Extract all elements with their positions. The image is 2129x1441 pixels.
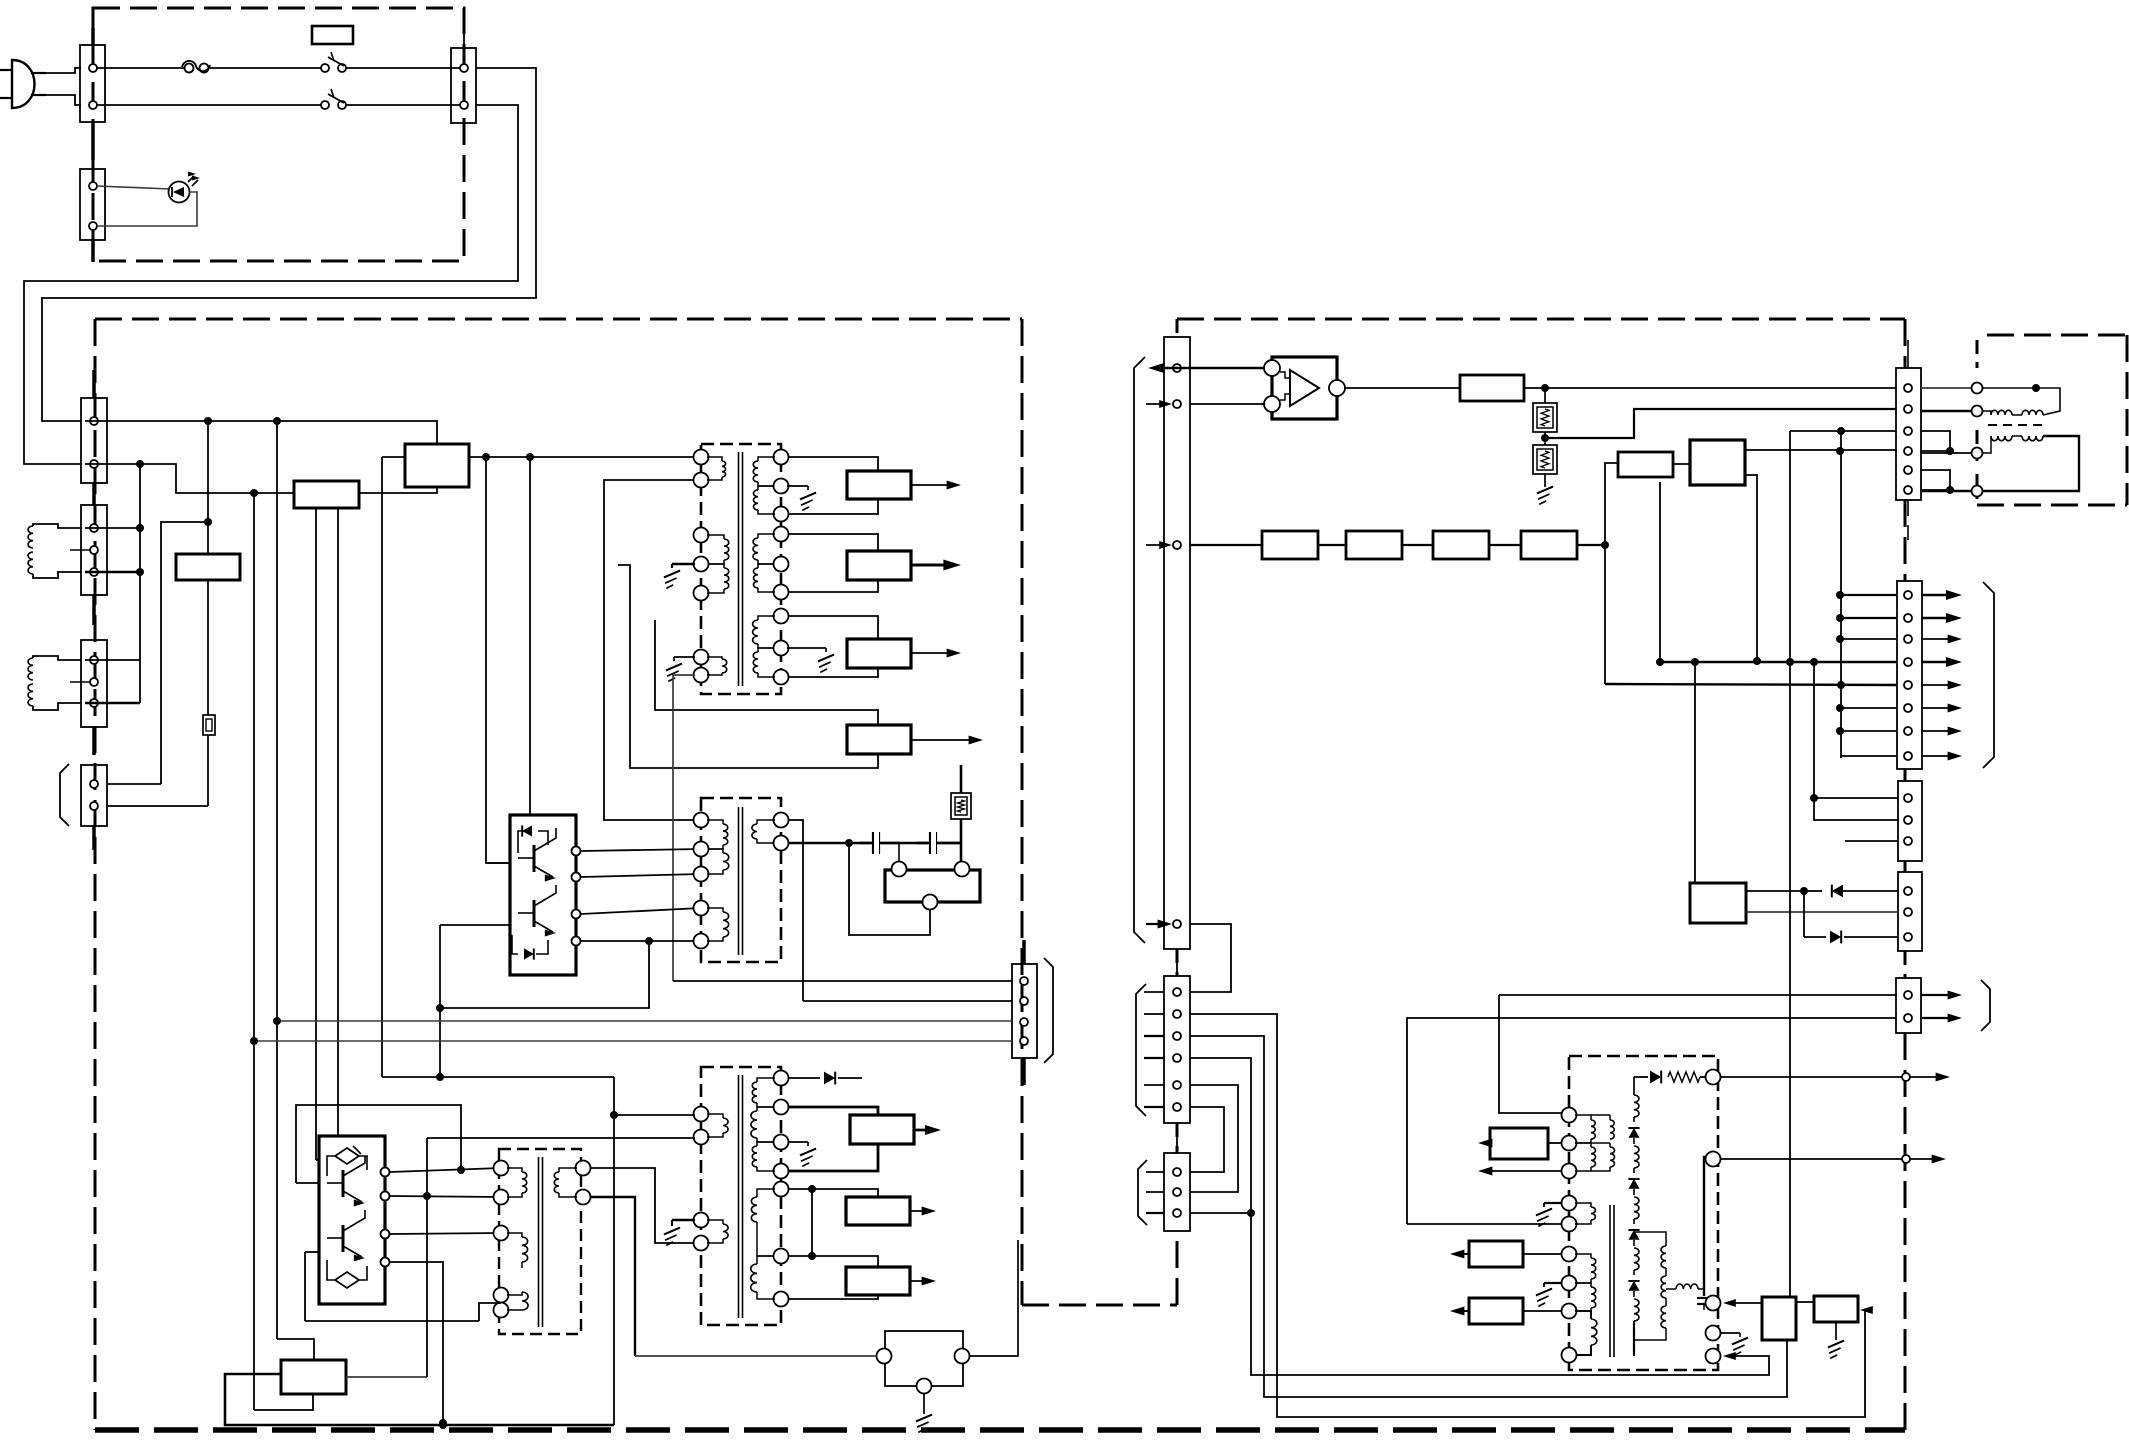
ground IC901	[916, 1393, 932, 1432]
wire sec2b to box OUT2	[788, 580, 878, 592]
ground R65	[1828, 1322, 1844, 1358]
arrow into T905 t5	[1723, 1352, 1736, 1360]
arrows CN56	[1921, 590, 1962, 761]
diac DZ902	[327, 1260, 367, 1288]
fuse F902	[203, 715, 215, 735]
T904 right winding u1	[752, 1078, 775, 1107]
T903 left winding a	[507, 1168, 527, 1197]
wire T904 l3 to OUT7b	[788, 1295, 878, 1299]
wire vertical x140	[139, 464, 141, 703]
arrow R61 left	[1478, 1139, 1492, 1148]
wire T903 right1 to T904	[590, 1168, 695, 1243]
connector CN57	[1898, 781, 1922, 861]
connector CN03	[80, 169, 105, 262]
T901 sec winding2a	[753, 534, 775, 564]
arrow in CN51 pin2	[1146, 400, 1172, 408]
T901 sec winding1a	[753, 457, 775, 486]
wire R55-R56	[1402, 544, 1433, 546]
box R62	[1469, 1241, 1523, 1267]
wire IC901 left (gray)	[635, 1355, 877, 1357]
wire S1 to CN02	[346, 67, 464, 69]
T901 sec winding1b	[754, 486, 776, 514]
wire live bus to box R11	[85, 421, 437, 443]
wire CN52 p3 drop	[1190, 1036, 1787, 1397]
wire CN55 to choke1	[1921, 387, 1971, 389]
junction x530	[526, 453, 534, 461]
ground t4	[1720, 1333, 1748, 1355]
switch S1	[321, 52, 346, 72]
ground T904 u3	[788, 1142, 816, 1166]
wire bus x1841	[1840, 431, 1842, 758]
box R21	[281, 1360, 346, 1394]
transistor Q902	[518, 885, 556, 937]
wire W-live CN02 to primary	[42, 68, 536, 421]
wire y431 row	[1790, 430, 1896, 432]
T901 sec winding3b	[753, 648, 775, 677]
wire pin528 link	[85, 527, 140, 529]
T905 left windings	[1575, 1115, 1615, 1355]
wire CN01 pin2 to switch S2	[97, 104, 321, 106]
junction bus x1840	[1836, 447, 1844, 735]
junction y685	[1837, 681, 1845, 689]
degauss chain vertical x208	[207, 421, 209, 806]
wire vertical x615	[613, 1077, 615, 1425]
junction l1	[808, 1185, 816, 1193]
wire CN53 p3 stub	[1190, 1212, 1251, 1214]
wire IC952-IC953	[1673, 463, 1690, 465]
T901 winding left3	[707, 657, 727, 675]
box OUT4	[847, 725, 911, 754]
wire y995 run	[1499, 994, 1896, 996]
junction y662	[1810, 658, 1818, 666]
T905 terminal4	[1706, 1326, 1721, 1341]
relay box RL902	[885, 870, 980, 902]
arrow OUT3	[911, 649, 961, 658]
box IC901 (photocoupler)	[885, 1331, 963, 1386]
bracket CN53	[1138, 1160, 1147, 1225]
junction x649	[645, 937, 653, 945]
junction dots x140	[136, 524, 144, 576]
T901 sec pins group2	[774, 527, 789, 600]
switch S2	[321, 89, 346, 109]
arrow R62 left	[1450, 1250, 1469, 1259]
wire CN51p2 to IC951	[1190, 403, 1265, 405]
wire R64-R65 link	[1796, 1301, 1815, 1303]
junction bridge right2	[1946, 486, 1954, 494]
ground at T901 left2	[664, 564, 695, 588]
inductor L901	[28, 524, 90, 578]
wire vertical x305	[304, 1252, 306, 1321]
wire IC951 out	[1345, 387, 1460, 389]
posistor TH901	[951, 765, 971, 861]
box R12 (degauss)	[176, 554, 240, 580]
T904 left pins	[694, 1107, 709, 1251]
fuse F901	[182, 61, 210, 73]
wire IC954 o2	[1746, 911, 1898, 913]
box R11 posistor	[405, 444, 469, 487]
T903 left pins	[494, 1161, 509, 1318]
junction x277-1021	[273, 1017, 281, 1025]
wire x427 riser	[426, 1138, 428, 1377]
wires to CN57	[1810, 662, 1898, 841]
arrow OUT6	[910, 1207, 936, 1216]
wire out 1077	[1720, 1073, 1950, 1082]
transistor Q903	[327, 1156, 365, 1207]
wire CN14 pin784 link	[107, 783, 161, 785]
T904 right pins upper	[774, 1071, 789, 1179]
wire plug to connector CN01	[46, 68, 81, 105]
T902d right pins	[774, 813, 789, 851]
wire CN55 to choke2 (bold)	[1921, 410, 1971, 413]
T904 right pins lower	[774, 1182, 789, 1307]
wire pin572 link	[85, 571, 140, 574]
junction R52/R53	[1541, 434, 1549, 442]
wire OUT6 crosslink	[811, 1189, 813, 1256]
wire IC954 o1	[1746, 887, 1822, 895]
wire vertical x486	[486, 457, 510, 863]
T901 winding left2a	[707, 535, 729, 564]
wire vertical x254	[253, 493, 255, 1410]
box OUT6	[846, 1197, 910, 1225]
stubs CN52	[1144, 992, 1164, 1107]
T904 left winding b	[707, 1220, 728, 1243]
resistor chain row	[1190, 544, 1262, 546]
wire D952 branch	[1803, 891, 1805, 937]
wire RL902 bottom loop	[849, 843, 930, 935]
IC901 terminals	[877, 1349, 970, 1394]
wire Q903 base stub	[296, 1182, 319, 1184]
wire Qblock base2	[440, 924, 510, 926]
T902d right winding	[752, 820, 775, 843]
T905 core	[1610, 1205, 1614, 1357]
box IC953	[1690, 440, 1745, 485]
box OUT7	[846, 1267, 910, 1295]
arrow row 1171	[1478, 1167, 1562, 1176]
T904 left winding a	[707, 1114, 728, 1137]
wire R51 to CN55	[1524, 387, 1896, 389]
wire CN52 p2 drop	[1190, 1014, 1865, 1417]
choke pins	[1972, 383, 1983, 497]
junction x1757	[1753, 657, 1761, 665]
wire bridge right 470-490	[1921, 470, 1950, 490]
connector CN01	[80, 28, 105, 160]
transistor Q901	[518, 828, 556, 882]
wire CN52 p5 link	[1190, 1085, 1238, 1192]
junction x1695	[1691, 658, 1699, 666]
wire t2 to T903	[390, 1196, 501, 1197]
T901 primary pins	[694, 450, 709, 488]
wire T901 pin675 down (gray)	[673, 675, 695, 981]
wire t4 riser	[390, 1262, 443, 1425]
T904 right winding l1	[751, 1189, 775, 1230]
junction x427-1196	[423, 1192, 431, 1200]
wire CN59 feed riser	[1407, 1018, 1896, 1224]
junction R51 out	[1541, 384, 1549, 392]
wire vertical x530	[529, 457, 531, 815]
junction x1660	[1656, 658, 1664, 666]
transistor block Q901/Q902	[510, 815, 576, 975]
T902d core	[739, 807, 743, 955]
wire sec1b to box OUT1	[788, 499, 878, 514]
wire link CN51-CN52	[1190, 924, 1231, 992]
wire R54-R55	[1318, 544, 1346, 546]
arrow in CN51 pin4	[1146, 920, 1172, 929]
wire sec1 to box OUT1	[788, 457, 878, 471]
wires bus to CN56	[1840, 595, 1896, 756]
wire CN55 to choke3	[1921, 452, 1971, 454]
wire sec3b to box OUT3	[788, 668, 878, 677]
box IC952	[1618, 452, 1673, 477]
wire T902d pin820 down	[788, 820, 803, 1001]
diode D952	[1804, 931, 1898, 944]
wire vertical x338	[337, 508, 339, 1136]
wire boxA out right	[469, 456, 701, 458]
box R56	[1433, 531, 1489, 559]
T904 right winding u2	[751, 1107, 773, 1142]
wire riser x1695	[1694, 662, 1696, 883]
wire W-neutral CN02 to primary	[24, 105, 518, 464]
IC951 terminals	[1264, 360, 1345, 412]
T905 terminal2	[1706, 1152, 1721, 1167]
wire vertical x382	[381, 457, 383, 1077]
wire Q903 wrap	[296, 1105, 461, 1183]
box R55	[1346, 531, 1402, 559]
T904 right winding u3	[752, 1142, 775, 1171]
connector CN59	[1896, 978, 1921, 1033]
wire pin660 link	[85, 659, 140, 661]
wire IC953 out2	[1745, 475, 1757, 661]
T901 primary winding	[707, 457, 726, 480]
wire T905 pin5 feed	[1407, 1223, 1562, 1225]
ground T905 tap2	[1536, 1283, 1562, 1306]
junction snubber	[845, 839, 853, 847]
junction bridge right	[1946, 447, 1954, 455]
wire Qblock t1 to T902d	[581, 849, 701, 851]
wire fuse to CN14 pin806	[107, 805, 208, 807]
T901 sec winding2b	[754, 564, 776, 592]
wire boxA left tap	[382, 456, 405, 458]
T902d left pins	[694, 813, 709, 949]
transformer T901 dashed box	[701, 444, 781, 694]
wire CN01 pin1 to fuse	[97, 67, 184, 69]
wire t1 to T903	[390, 1168, 501, 1172]
bracket CN51	[1134, 357, 1145, 943]
T901 sec winding3a	[753, 616, 775, 648]
junction wrap	[457, 1166, 465, 1174]
wire CN52 p4 drop	[1190, 1058, 1769, 1375]
wire x254 to R21 bottom	[254, 1394, 313, 1410]
box IC954	[1690, 883, 1746, 923]
wire CN55 to choke4 (bold)	[1921, 490, 1971, 493]
T903 left winding b	[507, 1233, 528, 1268]
bracket CN904	[1044, 958, 1053, 1063]
ground T904 left	[664, 1220, 695, 1245]
bottom dashed border	[95, 1427, 1905, 1433]
wire S2 to CN02	[346, 104, 464, 106]
wire Qblock base1	[487, 862, 510, 864]
choke wiring right	[1983, 384, 2079, 491]
box R63	[1469, 1298, 1523, 1324]
AC inlet dashed enclosure	[93, 8, 464, 261]
transformer T905 dashed box	[1569, 1056, 1718, 1370]
boxed resistor R52	[1533, 387, 1557, 445]
ground at T901 left3	[666, 657, 695, 681]
diode D902	[512, 935, 548, 960]
wire t3 to T903	[390, 1233, 501, 1234]
wire R63 right	[1523, 1310, 1562, 1312]
wire bridge right 431-451	[1921, 431, 1950, 451]
wire vertical x604 primary return	[604, 480, 701, 820]
wire y1077 run	[382, 1076, 614, 1078]
wire divider tap to CN55	[1545, 409, 1896, 438]
junction x1790	[1786, 658, 1794, 666]
T905 terminal1	[1706, 1070, 1721, 1085]
T905 stack top diode/resistor	[1634, 1071, 1706, 1084]
connector CN14	[81, 765, 107, 850]
neon lamp DS901	[169, 172, 201, 203]
T905 second winding col	[1634, 1232, 1666, 1340]
wire T903 bottom pins	[479, 1303, 501, 1321]
connector CN58	[1898, 872, 1922, 951]
wire snubber main	[788, 842, 962, 845]
T901 aux pins left group3	[694, 650, 709, 683]
wire R21 left loop (bold)	[225, 1374, 614, 1425]
wire T904 u2 to OUT5 (bold)	[788, 1107, 878, 1115]
wire sec3 to box OUT3	[788, 616, 878, 639]
T901 sec pins group3	[774, 609, 789, 685]
junction x254-1041	[250, 1037, 258, 1045]
capacitor C911	[860, 832, 899, 854]
arrow OUT4	[911, 736, 983, 745]
wire neutral to relay box	[85, 464, 294, 493]
junction bus top	[1837, 427, 1845, 435]
wire Q2 left in2	[305, 1251, 319, 1253]
connector CN56	[1897, 581, 1922, 769]
T902d left winding a	[707, 820, 728, 849]
box OUT2	[847, 551, 911, 580]
wire vertical x440	[439, 925, 441, 1077]
wire IC901 right stub	[969, 1240, 1018, 1356]
boxed resistor R53	[1533, 445, 1557, 487]
T901 aux pins left group2	[694, 528, 709, 601]
wire CN03 pin1 to lamp	[97, 186, 170, 189]
choke core dashed	[1988, 424, 2048, 426]
wire riser x1660	[1659, 482, 1661, 662]
T905 filter coil	[1666, 1284, 1704, 1296]
secondary block dashed border (right)	[1177, 319, 1905, 1430]
connector CN52	[1164, 976, 1190, 1153]
box R57	[1521, 531, 1577, 559]
bracket CN56	[1983, 582, 1994, 768]
wire horizontal y1321	[305, 1320, 479, 1322]
diode D901	[518, 825, 548, 853]
connector CN02	[451, 30, 476, 140]
T901 core	[739, 452, 743, 686]
junction dots neutral	[136, 460, 258, 497]
arrows CN59	[1921, 991, 1962, 1023]
box OUT5	[850, 1115, 914, 1144]
arrow into R65 right	[1860, 1306, 1873, 1314]
drive transformer T903 dashed box	[499, 1149, 581, 1334]
wire Q2 left in1	[316, 1159, 319, 1161]
T904 right winding l2	[751, 1230, 775, 1299]
wire T904 pin1137 left	[427, 1137, 695, 1139]
wire T903 right2 bold	[590, 1197, 635, 1356]
wire R62 right	[1523, 1253, 1562, 1255]
wire sec2 to box OUT2	[788, 534, 878, 551]
wire Qblock t4 to T902d	[581, 940, 701, 942]
wire Qblock t2 to T902d	[581, 874, 701, 877]
arrow out CN51 pin1	[1148, 363, 1190, 373]
box OUT1	[847, 471, 911, 499]
junction y1423	[439, 1421, 447, 1429]
arrow OUT1	[911, 481, 961, 490]
junction chain out	[1601, 541, 1609, 549]
connector CN51 (tall)	[1164, 337, 1190, 976]
wire to CN904 pin3	[277, 1020, 1012, 1022]
T905 terminal3	[1706, 1296, 1721, 1311]
AC plug P1	[0, 60, 46, 108]
wire to CN904 pin1	[673, 980, 1012, 982]
arrow R63 left	[1450, 1307, 1469, 1316]
wire CN52 p6 link	[1190, 1107, 1224, 1172]
T901 winding left2b	[707, 564, 729, 593]
box R54	[1262, 531, 1318, 559]
wire x278 to R21 top	[277, 1339, 314, 1360]
box R61	[1490, 1128, 1548, 1159]
wire R21 right (gray)	[346, 1376, 427, 1378]
connector CN53	[1164, 1153, 1190, 1231]
transistor Q904	[327, 1210, 365, 1262]
bracket CN59	[1981, 980, 1990, 1031]
T905 diode-winding stack	[1628, 1077, 1639, 1356]
wire x1790 drop	[1789, 431, 1791, 1297]
bracket CN52	[1136, 984, 1146, 1116]
junction x440	[436, 1004, 444, 1081]
T903 left winding c	[507, 1292, 528, 1310]
wire x1704 drop (bold)	[1704, 1157, 1712, 1296]
wire cap tap down	[898, 843, 900, 861]
T905 left pins	[1562, 1108, 1577, 1363]
wire into t3	[1723, 1299, 1762, 1307]
wire T904 pin1114 left	[614, 1114, 695, 1116]
box OUT3	[847, 639, 911, 668]
wire IC953 out1	[1745, 449, 1896, 451]
junction dot boxA out	[482, 453, 490, 461]
T903 right winding	[554, 1168, 577, 1197]
T901 sec pins group1	[774, 450, 789, 522]
junction dots on live bus	[204, 417, 281, 425]
arrow OUT5 (bold)	[914, 1125, 941, 1135]
ground R53	[1537, 487, 1553, 505]
connector CN12	[81, 505, 107, 625]
wire riser x1605	[1605, 463, 1618, 684]
junction l2	[808, 1252, 816, 1260]
wire Qblock t3 to T902d	[581, 908, 701, 914]
T903 right pins	[576, 1161, 591, 1205]
connector CN904	[1012, 940, 1037, 1085]
primary block dashed border (left)	[95, 319, 1177, 1430]
Q2-block terminals	[381, 1168, 390, 1267]
T905 terminal5	[1706, 1349, 1721, 1364]
Q-block terminals	[572, 847, 581, 946]
wire vertical x277	[276, 421, 278, 1339]
wire R57 out	[1577, 544, 1605, 546]
diode D911	[788, 1072, 862, 1085]
wire pin703 link	[85, 702, 140, 705]
stubs CN53	[1146, 1172, 1164, 1213]
diac DZ901	[327, 1146, 367, 1176]
